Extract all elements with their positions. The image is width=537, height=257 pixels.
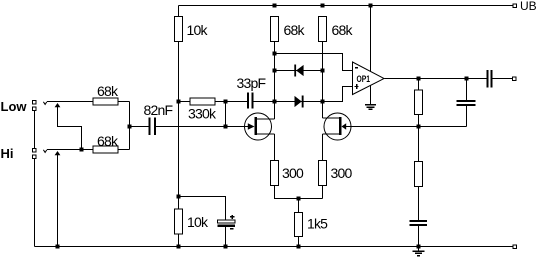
svg-text:68k: 68k bbox=[97, 83, 119, 99]
svg-text:300: 300 bbox=[331, 165, 353, 181]
svg-text:10k: 10k bbox=[187, 22, 209, 38]
svg-text:300: 300 bbox=[282, 165, 304, 181]
svg-text:82nF: 82nF bbox=[144, 102, 173, 118]
svg-text:33pF: 33pF bbox=[237, 75, 266, 91]
svg-text:1k5: 1k5 bbox=[307, 216, 328, 232]
svg-text:68k: 68k bbox=[284, 22, 306, 38]
svg-text:68k: 68k bbox=[97, 133, 119, 149]
svg-text:Low: Low bbox=[1, 99, 28, 114]
svg-text:Hi: Hi bbox=[1, 146, 14, 161]
svg-text:OP1: OP1 bbox=[357, 74, 371, 85]
svg-text:68k: 68k bbox=[332, 22, 354, 38]
svg-text:UB: UB bbox=[520, 0, 537, 13]
svg-text:10k: 10k bbox=[187, 214, 209, 230]
svg-text:330k: 330k bbox=[188, 106, 217, 122]
